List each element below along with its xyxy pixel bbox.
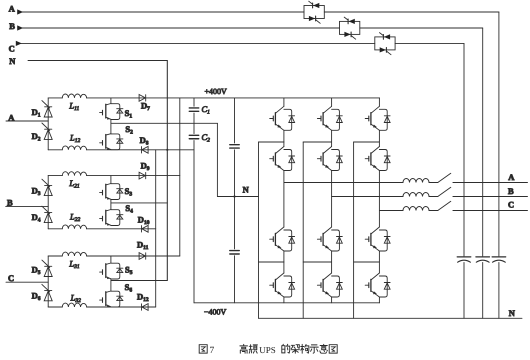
- wire: phase A bypass line left segment: [19, 11, 304, 13]
- svg-text:N: N: [509, 308, 516, 318]
- svg-text:L21: L21: [68, 178, 79, 190]
- wire: bottom N rail: [259, 317, 523, 319]
- glyph 架: [291, 345, 299, 354]
- wire: phase A bypass line right segment: [324, 11, 499, 13]
- capacitor Cf-B: [476, 257, 490, 262]
- switch K-B: [438, 187, 451, 196]
- svg-text:C2: C2: [202, 132, 211, 144]
- wire: block2 left vertical: [47, 176, 49, 229]
- svg-text:D12: D12: [137, 292, 149, 304]
- bypass switch SW-B: [340, 17, 360, 39]
- diode D11: [139, 253, 146, 260]
- svg-text:S6: S6: [125, 282, 133, 294]
- thyristor D2: [42, 123, 52, 139]
- wire: N clamp vertical leg1 (to bottom N rail): [258, 142, 260, 318]
- IGBT S6: [100, 291, 123, 307]
- wire: bypass C vertical (right): [463, 43, 465, 318]
- svg-text:S2: S2: [125, 124, 133, 136]
- IGBT Q2: [270, 147, 295, 171]
- arrow on line C: [16, 41, 22, 46]
- svg-text:+400V: +400V: [205, 87, 228, 96]
- IGBT S3: [100, 184, 123, 200]
- wire: block3 top rail through D11: [48, 255, 180, 257]
- svg-text:L31: L31: [68, 258, 79, 270]
- svg-text:A: A: [9, 3, 16, 13]
- wire: C1/C2 string verticals: [193, 98, 195, 303]
- svg-text:D2: D2: [32, 131, 41, 143]
- wire: midline3: [111, 280, 167, 282]
- svg-text:D5: D5: [32, 264, 41, 276]
- wire: block2 top rail through D9: [48, 175, 180, 177]
- wire: -400V bottom rail: [194, 302, 380, 304]
- inductor L32: [62, 303, 86, 307]
- IGBT Q12: [365, 273, 390, 297]
- IGBT Q5 (leg2 top): [317, 106, 342, 130]
- svg-text:7: 7: [210, 346, 215, 356]
- svg-text:B: B: [9, 21, 15, 31]
- svg-text:D10: D10: [138, 214, 150, 226]
- bypass switch SW-C: [375, 33, 395, 55]
- svg-text:A: A: [508, 172, 515, 182]
- svg-text:S1: S1: [125, 108, 133, 120]
- svg-text:D4: D4: [32, 212, 41, 224]
- wire: midline2: [111, 202, 167, 204]
- IGBT S2: [100, 134, 123, 150]
- wire: leg2 clamp top: [303, 141, 331, 143]
- IGBT S5: [100, 263, 123, 279]
- wire: rectifier input B: [6, 206, 49, 208]
- svg-text:−400V: −400V: [204, 308, 227, 317]
- bypass switch SW-A: [304, 1, 324, 23]
- IGBT Q7: [317, 227, 342, 251]
- glyph 频: [249, 345, 257, 353]
- svg-text:S4: S4: [125, 203, 133, 215]
- wire: inverter leg1 vertical segments: [283, 98, 285, 303]
- IGBT Q4: [270, 273, 295, 297]
- svg-text:N: N: [9, 56, 16, 66]
- svg-text:S5: S5: [125, 264, 133, 276]
- wire: neutral vertical drop: [166, 61, 168, 281]
- svg-text:S3: S3: [125, 186, 133, 198]
- inductor L12: [62, 146, 86, 150]
- diode D7: [139, 95, 146, 102]
- IGBT Q9 (leg3 top): [365, 106, 390, 130]
- svg-text:D1: D1: [32, 107, 41, 119]
- wire: +400V top rail (block1 top rail, through D7, to inverter): [48, 97, 379, 99]
- wire: block1 bottom rail (through D8 to C2 foot): [48, 149, 194, 151]
- wire: phase B bypass line left segment: [19, 27, 340, 29]
- thyristor D5: [42, 260, 52, 276]
- wire: midline1 (rectifier N tap to C1/C2 midpoint): [111, 122, 217, 124]
- wire: leg3 clamp bottom: [354, 261, 380, 263]
- wire: +400V collection vertical (D9/D11): [179, 98, 181, 256]
- IGBT Q11: [365, 227, 390, 251]
- glyph 的: [282, 344, 290, 353]
- IGBT Q8: [317, 273, 342, 297]
- capacitor C1: [189, 108, 198, 111]
- wire: inverter leg2 vertical segments: [331, 98, 333, 303]
- glyph 示: [310, 345, 318, 353]
- capacitor Cbus-upper: [230, 145, 239, 148]
- wire: bypass B vertical (right): [482, 28, 484, 318]
- diode D8: [142, 146, 149, 153]
- svg-text:C: C: [9, 43, 15, 53]
- wire: block3 left vertical: [47, 256, 49, 307]
- svg-text:D6: D6: [32, 290, 41, 302]
- wire: block1 switch-leg stubs: [110, 98, 112, 134]
- svg-text:D7: D7: [141, 100, 150, 112]
- glyph 图 (second): [329, 345, 337, 353]
- inductor L31: [62, 252, 86, 256]
- wire: bypass A vertical (right): [498, 12, 500, 318]
- svg-text:L32: L32: [70, 292, 81, 304]
- diode D12: [142, 304, 149, 311]
- svg-text:L12: L12: [69, 132, 80, 144]
- capacitor Cbus-lower: [230, 251, 239, 254]
- glyph 构: [301, 344, 309, 353]
- thyristor D1: [42, 101, 52, 117]
- thyristor D3: [42, 179, 52, 195]
- inductor Lout-B: [403, 193, 429, 197]
- capacitor Cf-A: [492, 257, 506, 262]
- inductor L22: [62, 225, 86, 229]
- wire: block3 switch-leg stubs: [110, 256, 112, 291]
- IGBT S4: [100, 210, 123, 226]
- junction dot N-vert x D8 line: [166, 149, 168, 151]
- wire: block2 bottom rail through D10: [48, 228, 156, 230]
- thyristor D6: [42, 284, 52, 300]
- svg-text:D8: D8: [140, 135, 149, 147]
- switch K-C: [438, 201, 451, 210]
- wire: output phase A line: [284, 182, 528, 184]
- svg-text:UPS: UPS: [259, 345, 276, 355]
- wire: phase C bypass line right segment: [395, 42, 464, 44]
- wire: block3 bottom rail through D12: [48, 306, 156, 308]
- arrow on line B: [17, 25, 23, 30]
- IGBT Q10: [365, 147, 390, 171]
- inductor L11: [62, 94, 86, 98]
- wire: block2 switch-leg stubs: [110, 176, 112, 210]
- glyph 图: [199, 345, 207, 353]
- inductor Lout-A: [403, 179, 429, 183]
- diode D9: [139, 172, 146, 179]
- wire: N mid vertical from midline1: [216, 123, 218, 196]
- svg-text:C1: C1: [202, 104, 211, 116]
- wire: N clamp vertical leg3: [353, 142, 355, 318]
- wire: neutral input line: [28, 60, 167, 62]
- wire: rectifier input A: [6, 120, 48, 122]
- glyph 意: [320, 344, 328, 353]
- wire: inverter leg3 vertical segments: [378, 98, 380, 303]
- IGBT S1: [100, 104, 123, 120]
- wire: leg2 clamp bottom: [303, 261, 331, 263]
- wire: output phase C line: [379, 210, 527, 212]
- svg-text:L22: L22: [69, 211, 80, 223]
- svg-text:D3: D3: [32, 186, 41, 198]
- figure caption: 图7 高频UPS的架构示意图 (CJK drawn as strokes): [199, 344, 337, 356]
- junction dot bus-cap x N horizontal: [233, 195, 235, 197]
- IGBT Q3: [270, 227, 295, 251]
- IGBT Q1 (leg1 top): [270, 106, 295, 130]
- svg-text:D11: D11: [137, 240, 149, 252]
- IGBT Q6: [317, 147, 342, 171]
- svg-text:N: N: [243, 185, 250, 195]
- wire: rectifier input C: [6, 281, 48, 283]
- wire: leg1 clamp bottom: [259, 261, 284, 263]
- inductor L21: [62, 172, 86, 176]
- svg-text:L11: L11: [68, 100, 79, 112]
- wire: output phase B line: [332, 196, 528, 198]
- wire: DC bus capacitor string vertical: [234, 98, 236, 303]
- switch K-A: [438, 173, 451, 182]
- diode D10: [142, 225, 149, 232]
- svg-text:C: C: [8, 273, 14, 283]
- capacitor C2: [189, 135, 198, 138]
- arrow on line A: [17, 9, 23, 14]
- wire: phase B bypass line right segment: [360, 27, 483, 29]
- wire: N clamp vertical leg2: [302, 142, 304, 318]
- svg-text:B: B: [508, 186, 514, 196]
- wire: N horizontal (label N): [217, 196, 258, 198]
- glyph 高: [240, 344, 248, 353]
- thyristor D4: [42, 206, 52, 222]
- wire: -400V collection vertical (D8/D10/D12): [155, 150, 157, 307]
- wire: leg3 clamp top: [354, 141, 380, 143]
- svg-text:D9: D9: [141, 160, 150, 172]
- wire: phase C bypass line left segment: [18, 42, 375, 44]
- svg-text:C: C: [508, 200, 514, 210]
- svg-text:B: B: [7, 197, 13, 207]
- wire: leg1 clamp top: [259, 141, 284, 143]
- inductor Lout-C: [403, 207, 429, 211]
- capacitor Cf-C (output filter on bypass C vertical): [457, 257, 471, 262]
- wire: block1 left vertical: [47, 98, 49, 150]
